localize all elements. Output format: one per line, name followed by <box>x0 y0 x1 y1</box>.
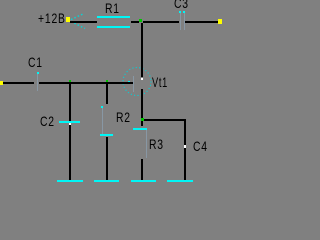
node junction base-C2 (green) <box>69 80 71 82</box>
wire top rail seg 3 <box>143 21 179 23</box>
wire top rail seg 4 <box>185 21 218 23</box>
resistor R2 bottom edge <box>100 134 113 136</box>
node junction top (green) <box>139 19 142 22</box>
wire top rail seg 1 <box>70 21 97 23</box>
label Vt1 <box>152 75 168 89</box>
capacitor C2 white gap <box>69 123 71 125</box>
ground bar 4 <box>167 180 193 182</box>
transistor selection dots on base wire <box>128 81 130 82</box>
capacitor C4 white gap <box>184 145 186 148</box>
resistor R2 corner dot <box>101 106 103 108</box>
transistor Vt1 white pin dot <box>141 78 143 80</box>
capacitor C2 plate (cyan) <box>59 121 80 123</box>
resistor R2 left edge (light) <box>102 108 103 134</box>
label C4 <box>193 139 208 153</box>
wire C4 vertical <box>184 121 186 180</box>
wire emitter-C4 horizontal <box>144 119 186 121</box>
wire emitter vertical <box>141 89 143 118</box>
label R1 <box>105 1 120 15</box>
label R3 <box>149 137 164 151</box>
wire R2 branch lower <box>106 137 108 180</box>
node junction emitter (green) <box>141 118 144 121</box>
node junction base-R2 (green) <box>106 80 108 82</box>
wire collector vertical <box>141 23 143 77</box>
capacitor C3 plate right <box>184 13 185 30</box>
capacitor C1 plate <box>37 74 38 91</box>
wire C2 branch lower <box>69 125 71 180</box>
resistor R1 (bottom edge) <box>97 26 130 28</box>
resistor R1 (top edge) <box>97 16 130 18</box>
wire top rail seg 2 <box>131 21 139 23</box>
transistor Vt1 base bar <box>133 76 134 92</box>
wire R3 lower <box>141 159 143 180</box>
capacitor C3 plate left <box>180 13 181 30</box>
selection rays at +12V terminal <box>0 0 231 185</box>
wire emitter to R3 <box>141 121 143 126</box>
wire base rail seg 2 <box>39 82 133 84</box>
ground bar 1 <box>57 180 83 182</box>
label +12B <box>38 11 66 25</box>
resistor R3 right edge (light) <box>146 130 147 158</box>
wire base rail seg 1 <box>3 82 34 84</box>
transistor Vt1 body circle (dashed) <box>123 68 151 96</box>
terminal +12V (yellow square) <box>66 17 70 22</box>
ground bar 2 <box>94 180 119 182</box>
capacitor C3 handle dots <box>179 11 181 13</box>
pin dot red <box>141 23 143 24</box>
capacitor C1 handle dot <box>37 72 39 74</box>
label C3 <box>174 0 189 10</box>
label R2 <box>116 110 131 124</box>
terminal out top (yellow square) <box>218 19 222 24</box>
wire C2 branch upper <box>69 84 71 121</box>
label C2 <box>40 114 55 128</box>
resistor R3 top edge <box>133 128 147 130</box>
terminal input left (yellow square) <box>0 81 3 85</box>
label C1 <box>28 55 43 69</box>
ground bar 3 <box>131 180 156 182</box>
wire R2 branch upper <box>106 84 108 104</box>
